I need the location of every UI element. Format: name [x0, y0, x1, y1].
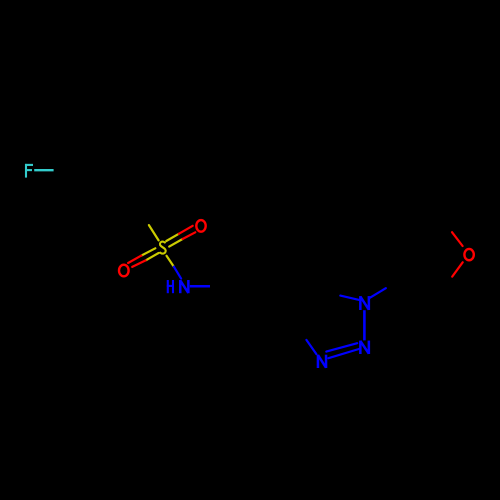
wire bond O3-C2' oxetane half (red) — [452, 232, 463, 246]
wire bond S-N nitrogen half (blue) — [174, 267, 181, 279]
atom N3 (triazole nitrogen) — [318, 355, 326, 368]
atom O1 (sulfonyl oxygen upper-right label) — [196, 220, 205, 232]
wire bond S=O2 line B sulfur half (yellow) — [146, 253, 159, 260]
wire bond S=O1 line B sulfur half (yellow) — [169, 239, 182, 247]
wire bond N1-C3' oxetanyl attachment half (blue) — [370, 288, 386, 298]
wire bond N1-N2 of triazole (blue) — [363, 310, 366, 340]
atom N of sulfonamide HN label — [180, 280, 188, 293]
wire bond O3-C4' oxetane half (red) — [452, 262, 463, 276]
atom F (fluorine label) — [25, 164, 33, 178]
wire bond N2=N3 main line (blue) — [328, 349, 359, 358]
wire bond S=O2 line A sulfur half (yellow) — [141, 248, 155, 255]
wire bond S=O2 line A oxygen half (red) — [128, 256, 141, 263]
wire bond N-CH2 nitrogen half (blue) — [190, 285, 210, 288]
atom N1 (triazole nitrogen) — [360, 296, 369, 310]
wire bond S=O1 line A oxygen half (red) — [179, 226, 193, 234]
wire bond S=O1 line A sulfur half (yellow) — [166, 234, 179, 241]
atom O3 (oxetane oxygen label) — [464, 249, 473, 260]
wire bond F-C6H4 fluorine half (cyan) — [34, 169, 53, 171]
wire bond S-N sulfur half (yellow) — [167, 256, 174, 267]
atom N2 (triazole nitrogen) — [360, 341, 369, 354]
atom H of sulfonamide HN label — [167, 280, 174, 293]
atom S (sulfonyl sulfur label) — [160, 242, 166, 254]
wire bond S=O1 line B oxygen half (red) — [183, 232, 196, 239]
wire bond N1-C7a ring half (blue) — [340, 296, 359, 300]
wire bond S=O2 line B oxygen half (red) — [132, 260, 145, 267]
wire bond S-CH3 sulfur half (yellow) — [149, 225, 159, 240]
atom O2 (sulfonyl oxygen lower-left label) — [119, 265, 129, 277]
wire bond N2=N3 inner line (blue) — [326, 343, 357, 351]
wire bond N3-C3a ring half (blue) — [306, 340, 316, 354]
